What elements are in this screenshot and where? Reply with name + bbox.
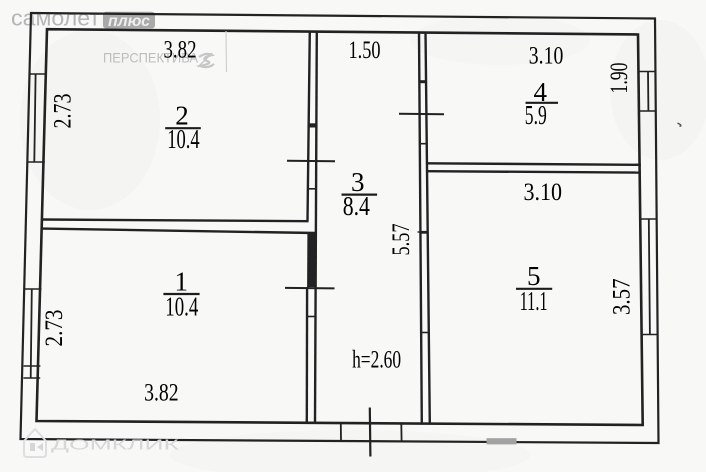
svg-text:3.10: 3.10: [524, 179, 563, 206]
dim 3.57 rotated: [609, 279, 636, 316]
svg-text:самолет: самолет: [11, 6, 100, 31]
corridor right wall solid tick room4 door: [419, 80, 426, 83]
svg-text:2.73: 2.73: [41, 310, 68, 347]
dim 3.10 room 4: [529, 43, 564, 70]
svg-text:10.4: 10.4: [167, 124, 200, 154]
room 5 door upper tick: [418, 231, 428, 234]
room 5 label: [516, 261, 552, 316]
svg-text:3.57: 3.57: [609, 279, 636, 316]
watermark domklik icon: [24, 429, 46, 457]
door dash room 4: [399, 113, 444, 116]
svg-text:11.1: 11.1: [520, 286, 548, 316]
speckle right of plan: [678, 123, 682, 127]
wall between rooms 4 and 5: [426, 163, 641, 172]
svg-text:10.4: 10.4: [165, 292, 198, 322]
room 5 door lower tick: [421, 332, 428, 334]
svg-text:ДОМКЛИК: ДОМКЛИК: [51, 438, 180, 454]
window W4 right wall room 4: [639, 72, 656, 112]
svg-text:8.4: 8.4: [343, 191, 371, 221]
svg-text:3.82: 3.82: [144, 380, 179, 407]
svg-text:плюс: плюс: [108, 13, 150, 30]
dim 5.57 rotated: [388, 224, 415, 256]
svg-text:1.90: 1.90: [606, 63, 633, 94]
entrance door axis line: [369, 408, 372, 457]
svg-text:5.57: 5.57: [388, 224, 415, 256]
corridor left wall solid tick: [308, 123, 317, 127]
room 1 right wall lower segment: [306, 287, 309, 423]
ceiling height h=2.60: [352, 345, 401, 374]
window W1 left wall room 1: [23, 289, 41, 378]
room 2 label: [165, 100, 201, 153]
room 1 right wall filled segment: [307, 233, 315, 287]
svg-text:1.50: 1.50: [349, 37, 381, 64]
corridor left wall lower tick: [307, 188, 316, 190]
dim 3.82 top: [164, 37, 197, 64]
dim 3.82 bottom: [144, 380, 179, 407]
watermark plus badge: [103, 12, 155, 30]
dim 2.73 upper rotated: [50, 94, 77, 129]
door dash room 1: [285, 287, 335, 290]
room 1 door tick: [307, 316, 315, 318]
dim 3.10 room 5: [524, 179, 563, 206]
window W2 left wall room 2: [28, 74, 46, 162]
room 4 label: [525, 77, 558, 130]
svg-text:5.9: 5.9: [525, 100, 547, 130]
room 1 label: [163, 267, 199, 322]
wall between rooms 1 and 2: [42, 220, 316, 234]
svg-text:3.10: 3.10: [529, 43, 564, 70]
faint scan crease: [225, 31, 228, 72]
corridor right wall: [419, 32, 430, 425]
watermark samolet text: [11, 6, 100, 31]
dim 1.50: [349, 37, 381, 64]
entrance door ticks bottom wall: [341, 423, 402, 441]
svg-text:3.82: 3.82: [164, 37, 197, 64]
window W5 right wall room 5: [641, 219, 658, 335]
svg-text:2.73: 2.73: [50, 94, 77, 129]
grey door threshold rect: [487, 438, 517, 444]
watermark perspektiva: [103, 50, 214, 68]
inner wall outline: [37, 29, 643, 425]
svg-text:h=2.60: h=2.60: [352, 345, 401, 374]
corridor left wall upper segment (room 2 side): [308, 31, 317, 423]
room 4 door lower tick: [420, 143, 427, 145]
watermark domklik text: [51, 438, 180, 454]
door dash room 2: [287, 160, 335, 163]
dim 2.73 lower rotated: [41, 310, 68, 347]
dim 1.90 rotated: [606, 63, 633, 94]
room 3 label: [342, 167, 378, 221]
